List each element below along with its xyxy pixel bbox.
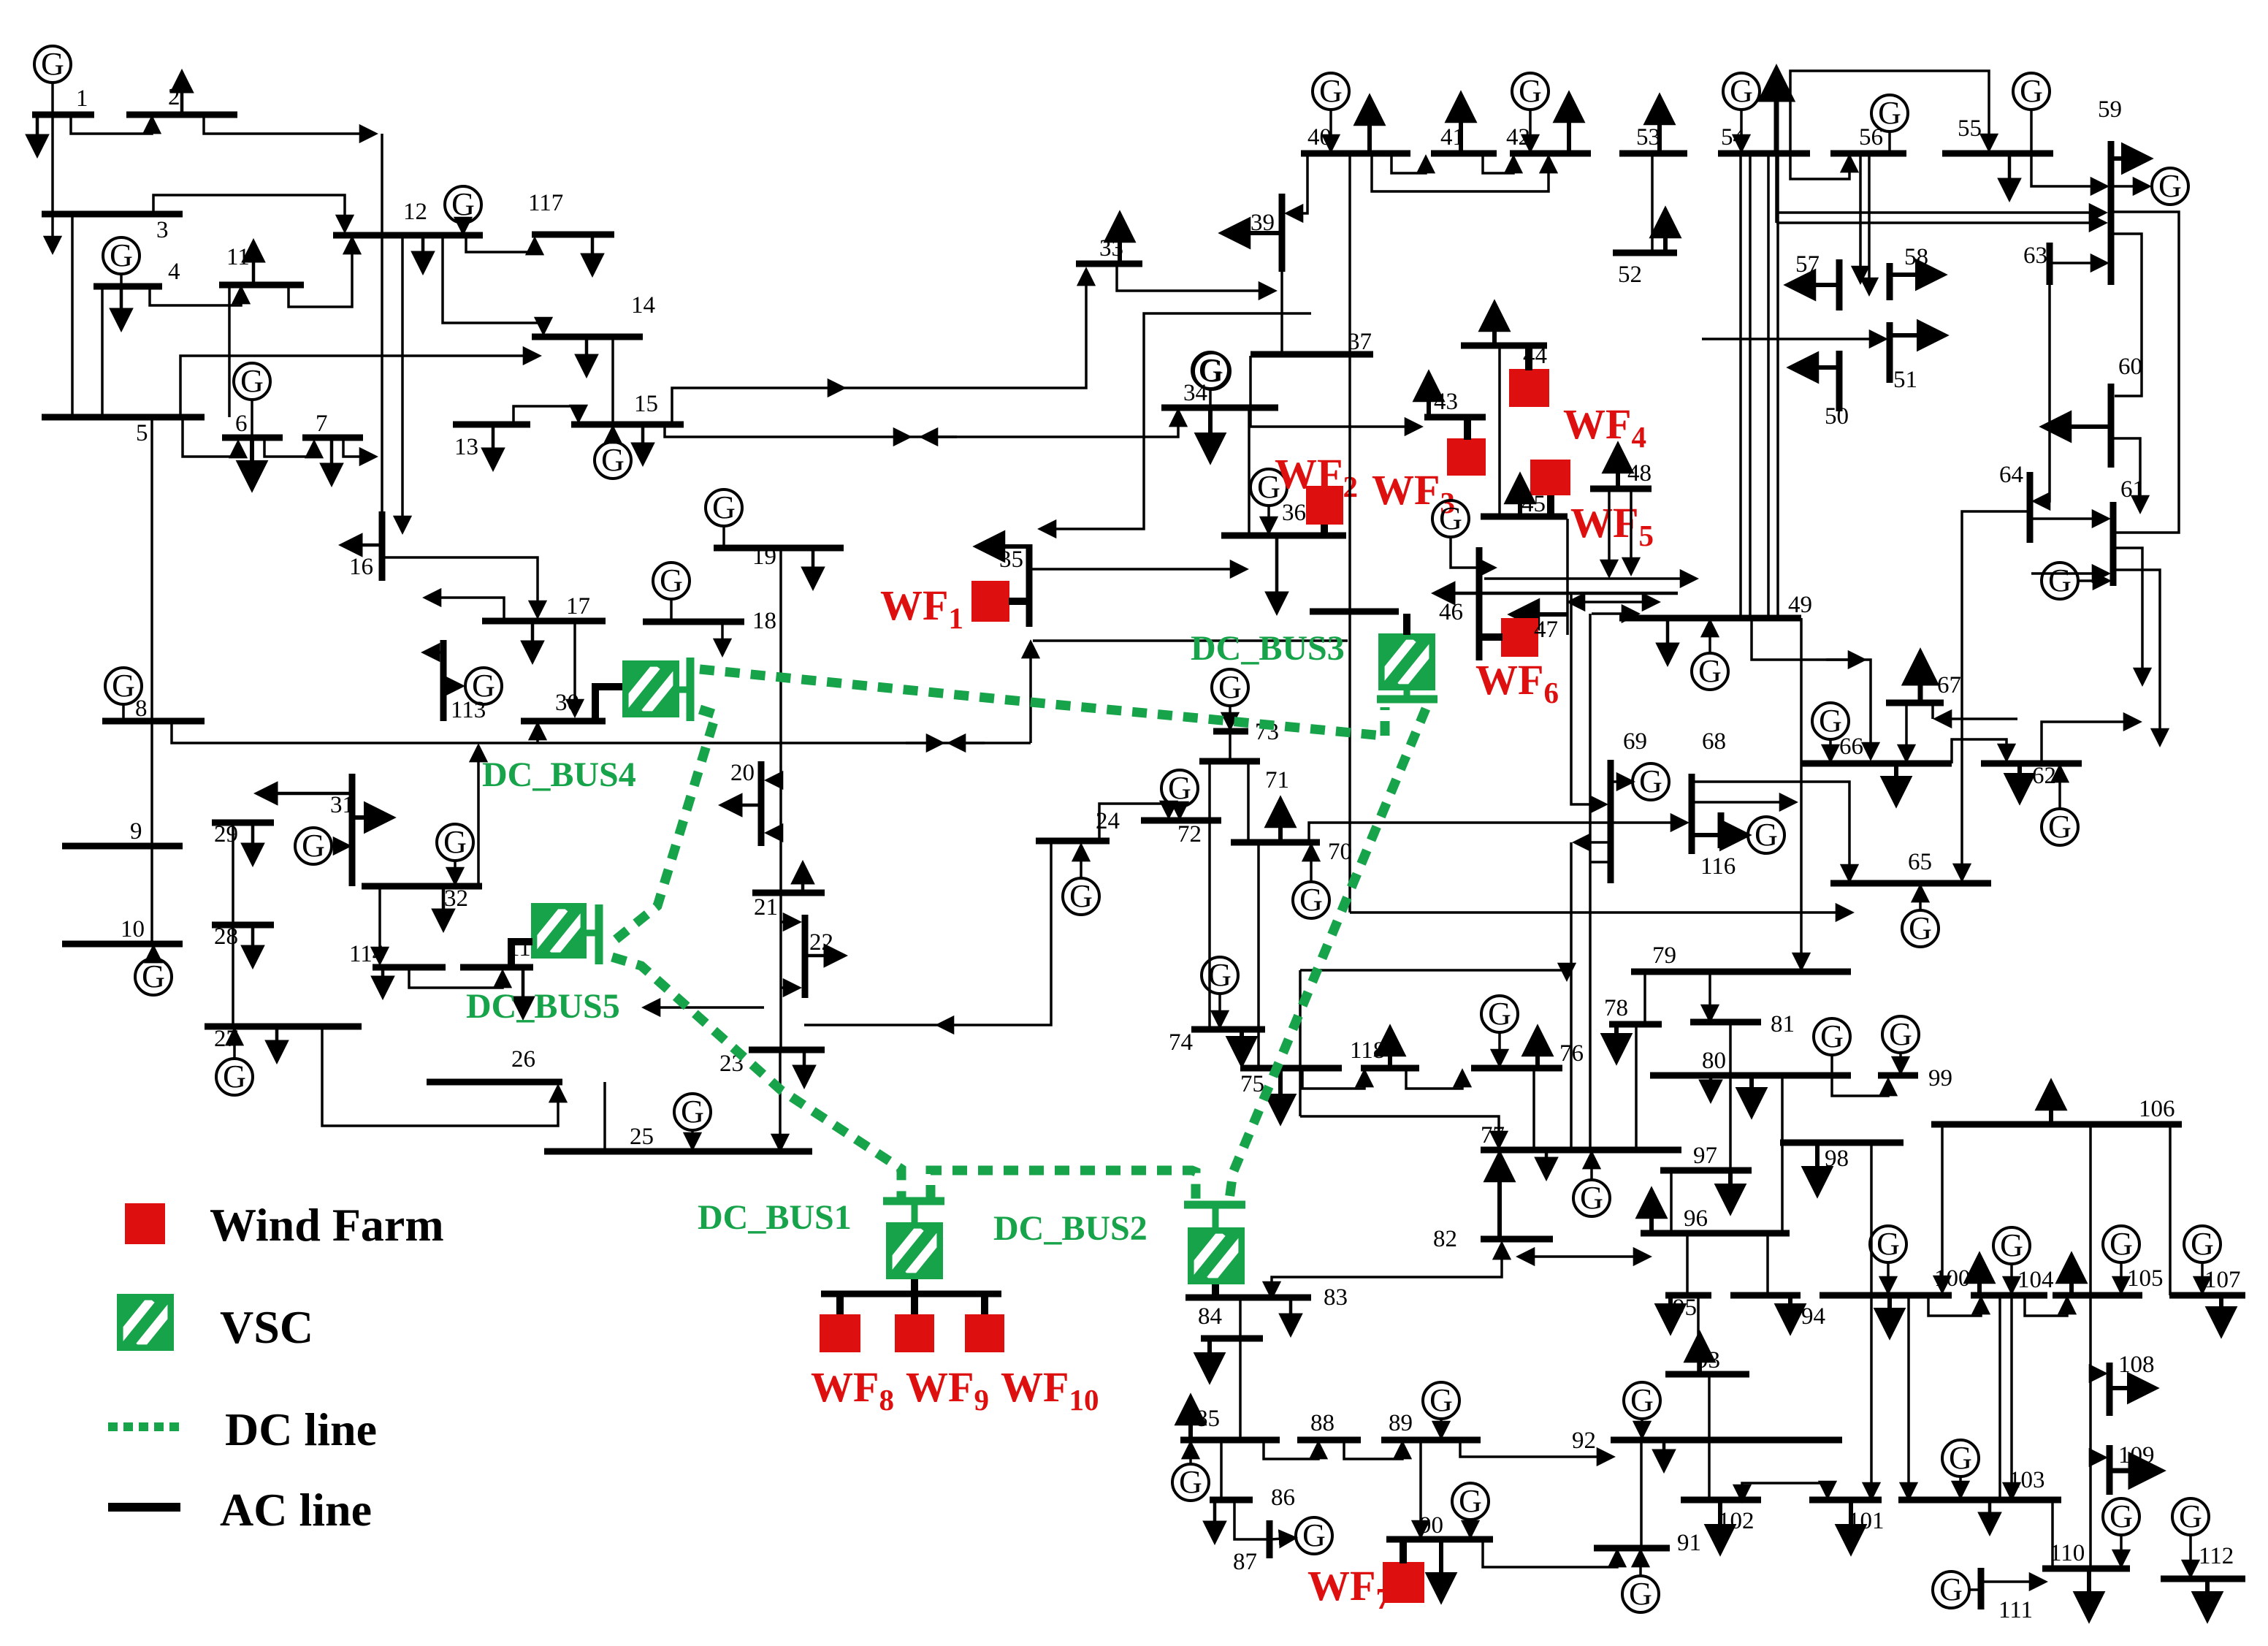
bus 98 <box>1780 1140 1904 1146</box>
load arrow up bus 2 <box>180 72 184 115</box>
generator G at bus 8 <box>105 668 142 704</box>
generator G at bus 55 <box>2013 73 2050 110</box>
bus 25 <box>544 1148 812 1155</box>
bus 30 <box>521 718 606 725</box>
bus 52 <box>1613 250 1677 256</box>
load arrow right bus 51 <box>1890 333 1944 338</box>
svg-text:67: 67 <box>1937 672 1961 698</box>
svg-text:G: G <box>2000 1227 2023 1263</box>
svg-text:18: 18 <box>752 608 776 634</box>
bus 88 <box>1297 1437 1361 1444</box>
wire 39-37 <box>1280 272 1283 354</box>
wire G99a lead <box>1832 1053 1888 1096</box>
wire G19 lead <box>722 525 725 546</box>
generator G at bus 111 <box>1933 1571 1969 1608</box>
svg-text:G: G <box>302 828 325 864</box>
wire G76 lead <box>1498 1031 1501 1065</box>
bus 66 <box>1801 761 1952 767</box>
load arrow left bus 20 <box>722 804 761 807</box>
wire 67 west link <box>1931 702 1934 719</box>
wire 32-30 <box>477 746 480 886</box>
bus 23 <box>749 1047 825 1053</box>
bus 71 <box>1199 758 1260 765</box>
bus 24 <box>1036 838 1110 845</box>
svg-text:G: G <box>110 237 133 273</box>
bus 117 <box>532 232 614 238</box>
load arrow up bus 105 <box>2069 1256 2074 1295</box>
svg-text:G: G <box>1488 996 1511 1032</box>
svg-text:4: 4 <box>168 259 180 285</box>
wire 54-49 feeders <box>1739 155 1742 617</box>
wire 61-62 east <box>2113 570 2160 744</box>
generator G at bus 54 <box>1723 73 1760 110</box>
svg-text:78: 78 <box>1604 995 1628 1021</box>
WF9 stub <box>911 1294 918 1316</box>
generator G at bus 4 <box>103 237 140 274</box>
bus 57 <box>1836 259 1843 310</box>
bus 50 <box>1836 351 1843 411</box>
wire 27-26 <box>322 1026 558 1126</box>
svg-text:95: 95 <box>1673 1295 1697 1321</box>
bus 78 <box>1609 1021 1662 1028</box>
svg-text:48: 48 <box>1627 460 1652 487</box>
wire 54-59 double A <box>1776 211 2105 214</box>
WF10 stub <box>981 1294 988 1316</box>
svg-text:G: G <box>1319 73 1343 109</box>
load arrow up bus 11 <box>252 242 256 285</box>
load arrow bus 6 <box>250 438 254 488</box>
generator G at bus 62 <box>2042 809 2078 845</box>
bus 3 <box>42 211 183 218</box>
bus 18 <box>643 619 744 625</box>
svg-text:96: 96 <box>1684 1205 1708 1232</box>
wire 35 east <box>1029 568 1246 571</box>
svg-text:70: 70 <box>1328 839 1352 865</box>
wire 40-37-38 <box>1348 153 1351 611</box>
svg-text:85: 85 <box>1196 1406 1220 1432</box>
svg-text:40: 40 <box>1307 124 1332 150</box>
bus 6 <box>222 435 283 441</box>
load arrow bus 49 <box>1666 618 1670 663</box>
svg-text:112: 112 <box>2199 1543 2234 1569</box>
generator G at bus 116 <box>1748 817 1784 853</box>
load arrow bus 29 <box>251 823 255 864</box>
load arrow bus 80 b <box>1749 1075 1754 1115</box>
wire 75-118 <box>1302 1068 1364 1089</box>
generator G at bus 42 <box>1512 73 1549 110</box>
legend VSC symbol <box>117 1294 174 1351</box>
wire bus30 to VSC4 <box>595 687 622 720</box>
wire 87-G <box>1271 1538 1295 1539</box>
svg-text:G: G <box>1299 882 1323 918</box>
wire 20 hook bottom <box>767 831 781 834</box>
bus 1 <box>32 112 94 118</box>
svg-text:G: G <box>1698 653 1722 689</box>
bus 45 <box>1481 514 1568 520</box>
wire 26-25 <box>603 1082 606 1150</box>
wire 51 west link <box>1702 338 1885 340</box>
wire 7-16 <box>343 438 375 457</box>
red square WF6 <box>1501 618 1538 657</box>
svg-text:76: 76 <box>1559 1040 1584 1067</box>
wire 104-103 a <box>1998 1295 2001 1500</box>
bus 106 <box>1931 1121 2182 1128</box>
load arrow right bus 31 <box>352 815 392 820</box>
load arrow bus 4 <box>120 286 123 329</box>
svg-text:DC_BUS5: DC_BUS5 <box>466 987 620 1026</box>
svg-text:80: 80 <box>1702 1048 1726 1074</box>
svg-text:57: 57 <box>1795 251 1820 278</box>
svg-text:3: 3 <box>156 217 169 243</box>
svg-text:1: 1 <box>76 85 88 112</box>
bus 4 <box>93 283 162 290</box>
wire 48-49 b <box>1630 489 1633 574</box>
bus 40 <box>1301 150 1410 157</box>
generator G at bus 100 <box>1870 1226 1906 1262</box>
generator G at bus 49 <box>1692 653 1728 690</box>
svg-text:77: 77 <box>1481 1122 1505 1148</box>
load arrow bus 84 <box>1207 1338 1212 1380</box>
wire 69-77 a <box>1570 842 1573 1148</box>
svg-text:G: G <box>443 824 467 860</box>
bus 83 <box>1185 1295 1311 1301</box>
svg-text:92: 92 <box>1572 1428 1596 1454</box>
load arrow left bus 31 <box>257 792 352 796</box>
wire G111 lead <box>1969 1588 1978 1591</box>
WF4 stub <box>1525 346 1532 370</box>
bus 100 <box>1820 1292 1952 1299</box>
bus 14 <box>532 334 643 340</box>
wire G24 lead <box>1080 845 1083 880</box>
load arrow up bus 76 <box>1535 1029 1540 1068</box>
wire 54-56 hook <box>1790 153 1849 179</box>
wire 56-51 <box>1868 153 1871 294</box>
load arrow bus 92 <box>1662 1440 1666 1470</box>
wire G56 lead <box>1888 130 1891 152</box>
bus 118 <box>1361 1065 1419 1072</box>
legend red square Wind Farm <box>125 1203 165 1244</box>
bus 68 <box>1689 774 1695 854</box>
generator G at bus 36 <box>1251 469 1287 506</box>
bus 87 <box>1267 1520 1273 1558</box>
wire 67-66 <box>1905 703 1908 761</box>
wire 64-65 <box>1962 511 2030 880</box>
wire G89 lead <box>1440 1417 1443 1437</box>
wire 104-105 hook <box>2025 1295 2067 1316</box>
load arrow left bus 46 <box>1435 592 1678 595</box>
svg-text:9: 9 <box>130 818 142 845</box>
VSC converter U5 (DC_BUS5) <box>531 903 587 959</box>
wire 83-82 <box>1272 1243 1502 1298</box>
svg-text:36: 36 <box>1282 500 1306 526</box>
svg-text:45: 45 <box>1521 491 1546 517</box>
wire G112 lead <box>2189 1533 2192 1576</box>
wire 22 hook top <box>781 921 799 923</box>
wire 3-12 <box>153 195 345 231</box>
bus 28 <box>212 922 274 929</box>
wire 100-103 <box>1907 1295 1910 1498</box>
load arrow bus 102 <box>1718 1500 1722 1552</box>
svg-text:G: G <box>1200 353 1223 389</box>
load arrow up bus 44 <box>1492 304 1497 346</box>
svg-text:13: 13 <box>454 434 478 460</box>
wire 40-41 <box>1391 153 1426 173</box>
wire 59-G <box>2114 185 2149 188</box>
load arrow bus 75 <box>1278 1068 1283 1121</box>
generator G at bus 99 a <box>1814 1018 1850 1055</box>
DC bus bar 5 <box>595 904 603 964</box>
wire 29-27 <box>232 823 234 1026</box>
wire 77-78 <box>1635 1024 1638 1150</box>
load arrow bus 13 <box>492 424 495 468</box>
load arrow up bus 41 <box>1459 95 1463 153</box>
wire 96-94 <box>1766 1233 1769 1295</box>
load arrow up bus 106 <box>2049 1083 2053 1124</box>
generator G at bus 10 <box>135 959 172 995</box>
bus 89 <box>1381 1437 1481 1444</box>
wire 106-109 <box>2091 1456 2105 1459</box>
svg-text:G: G <box>1820 1018 1844 1054</box>
bus 84 <box>1201 1336 1263 1342</box>
svg-text:69: 69 <box>1623 728 1647 755</box>
WF6 stub <box>1479 633 1503 641</box>
svg-text:111: 111 <box>1998 1597 2033 1623</box>
load arrow bus 27 <box>275 1026 279 1061</box>
svg-text:G: G <box>1630 1382 1654 1418</box>
generator G at bus 112 <box>2172 1498 2209 1535</box>
svg-text:58: 58 <box>1904 244 1928 270</box>
svg-text:G: G <box>660 563 683 598</box>
svg-text:10: 10 <box>121 916 145 942</box>
svg-text:G: G <box>1429 1382 1453 1418</box>
bus 16 <box>379 511 386 581</box>
wire 15-33 <box>672 388 844 424</box>
load arrow bus 34 <box>1208 408 1213 460</box>
wire G72 lead <box>1178 805 1181 818</box>
svg-text:35: 35 <box>999 546 1023 573</box>
wire 95-93 <box>1697 1295 1700 1374</box>
load arrow up bus 118 <box>1388 1029 1392 1068</box>
svg-text:G: G <box>1208 957 1232 993</box>
svg-text:56: 56 <box>1859 124 1883 150</box>
bus 58 <box>1887 263 1893 300</box>
load arrow bus 94 <box>1788 1295 1792 1331</box>
load arrow bus 55 <box>2008 153 2012 199</box>
bus 73 <box>1213 728 1248 735</box>
bus 102 <box>1681 1497 1761 1504</box>
wire 98-100-101 <box>1870 1143 1873 1498</box>
bus 8 <box>102 718 205 725</box>
wire 81-80 <box>1729 1022 1732 1075</box>
svg-text:110: 110 <box>2050 1540 2085 1566</box>
wire G10 lead <box>152 947 155 960</box>
bus 19 <box>714 545 844 552</box>
wire G46 lead <box>1451 536 1494 568</box>
svg-text:89: 89 <box>1389 1410 1413 1436</box>
bus 67 <box>1886 700 1944 706</box>
wire G90 lead <box>1469 1518 1472 1536</box>
svg-text:84: 84 <box>1198 1303 1222 1330</box>
svg-text:81: 81 <box>1771 1011 1795 1037</box>
load arrow up bus 67 <box>1918 653 1923 703</box>
svg-text:G: G <box>1302 1517 1326 1553</box>
wire 14-15 <box>611 337 614 424</box>
bus 34 <box>1161 405 1278 411</box>
bus 79 <box>1631 969 1851 975</box>
red square WF7 <box>1383 1562 1424 1603</box>
svg-text:94: 94 <box>1801 1303 1825 1330</box>
bus 107 <box>2169 1292 2245 1299</box>
svg-text:DC line: DC line <box>225 1403 377 1455</box>
bus 29 <box>212 820 274 826</box>
red square WF8 <box>820 1314 860 1352</box>
svg-text:G: G <box>1519 73 1542 109</box>
wire 71-70 <box>1247 761 1250 842</box>
bus 113 <box>440 640 447 721</box>
WF5 stub <box>1547 495 1554 518</box>
svg-text:30: 30 <box>555 690 579 716</box>
svg-text:DC_BUS1: DC_BUS1 <box>698 1198 852 1237</box>
bus 110 <box>2042 1566 2130 1572</box>
svg-text:Wind Farm: Wind Farm <box>210 1199 444 1251</box>
svg-text:G: G <box>1909 910 1932 946</box>
load arrow bus 36 <box>1275 536 1279 612</box>
svg-text:G: G <box>1439 500 1462 536</box>
bus 97 <box>1660 1167 1752 1174</box>
bus 15 <box>571 422 684 428</box>
wire 92-91 <box>1640 1440 1643 1548</box>
generator G at bus 32 <box>437 824 473 861</box>
svg-text:116: 116 <box>1700 853 1736 880</box>
svg-text:8: 8 <box>135 696 148 722</box>
bus 108 <box>2107 1363 2113 1416</box>
bus 46 <box>1476 547 1483 660</box>
wire 85-86 <box>1220 1440 1223 1500</box>
wire 64-61 b <box>2031 572 2108 575</box>
wire 106-108 <box>2091 1372 2105 1375</box>
bus 93 <box>1665 1371 1749 1378</box>
load arrow bus 114 <box>381 967 385 997</box>
wire 44-45 <box>1498 346 1501 517</box>
wire 46 east arrow <box>1512 612 1568 617</box>
wire 66-62 <box>1952 739 2007 763</box>
wire VSC2 to bus83 <box>1212 1284 1219 1296</box>
red square WF10 <box>965 1314 1004 1352</box>
svg-text:102: 102 <box>1718 1508 1755 1534</box>
load arrow bus 98 <box>1815 1143 1820 1194</box>
svg-text:G: G <box>681 1094 704 1129</box>
bus 80 <box>1650 1072 1851 1079</box>
load arrow bus 7 <box>330 438 334 484</box>
wire G27 lead <box>233 1029 236 1060</box>
svg-text:98: 98 <box>1825 1146 1849 1172</box>
load arrow bus 97 <box>1728 1170 1733 1211</box>
wire G32 lead <box>454 859 457 883</box>
svg-text:68: 68 <box>1702 728 1726 755</box>
wire 68 east <box>1692 801 1795 804</box>
svg-text:47: 47 <box>1534 617 1558 643</box>
svg-text:103: 103 <box>2009 1467 2045 1493</box>
bus 5 <box>42 414 205 421</box>
svg-text:108: 108 <box>2118 1352 2155 1378</box>
wire 68-65 <box>1692 782 1849 880</box>
red square WF5 <box>1530 460 1570 495</box>
svg-text:G: G <box>601 442 625 478</box>
svg-text:51: 51 <box>1893 367 1917 393</box>
wire 83-85 <box>1239 1298 1242 1440</box>
load arrow up bus 33 <box>1118 215 1122 264</box>
DC line BUS5-BUS1 <box>612 957 901 1200</box>
bus 64 <box>2027 472 2034 543</box>
svg-text:65: 65 <box>1908 849 1932 875</box>
wire 46 cluster a <box>1484 577 1696 580</box>
svg-text:71: 71 <box>1265 767 1289 793</box>
load arrow bus 115 <box>522 967 525 1017</box>
load arrow up bus 45 <box>1518 476 1522 517</box>
svg-text:G: G <box>1069 878 1093 914</box>
load arrow up bus 40 <box>1367 98 1372 153</box>
generator G at bus 66 <box>1812 703 1849 739</box>
wire 56-57 <box>1859 153 1862 282</box>
load arrow bus 12 <box>421 235 425 272</box>
wire 47 drop <box>1566 519 1569 635</box>
wire 102-101 <box>1742 1483 1828 1501</box>
bus 44 <box>1461 343 1547 349</box>
bus 22 <box>802 915 809 998</box>
wire 37-43 <box>1251 356 1421 427</box>
svg-text:15: 15 <box>634 391 658 417</box>
wire 40-39 <box>1287 153 1307 213</box>
load arrow up bus 70 <box>1278 800 1283 842</box>
wire 75-69 north <box>1300 970 1567 979</box>
bus 82 <box>1481 1236 1553 1243</box>
bus 104 <box>1971 1292 2047 1299</box>
bus 92 <box>1611 1437 1842 1444</box>
svg-text:G: G <box>1179 1464 1202 1500</box>
wire 118-76 <box>1406 1068 1462 1089</box>
bus 37 <box>1251 351 1373 358</box>
wire G61 lead <box>2077 579 2109 582</box>
wire 53-52 <box>1651 153 1654 253</box>
generator G at bus 87 <box>1296 1517 1332 1554</box>
bus 95 <box>1665 1292 1711 1299</box>
legend AC line sample <box>108 1503 180 1512</box>
svg-text:2: 2 <box>168 84 180 110</box>
bus 17 <box>482 618 606 625</box>
wire 59 loop east <box>2111 212 2179 533</box>
bus 27 <box>205 1024 362 1030</box>
wire 38-68 <box>1309 823 1687 842</box>
svg-text:DC_BUS2: DC_BUS2 <box>993 1209 1148 1248</box>
wire G100 lead <box>1887 1261 1890 1292</box>
wire 22 hook bottom <box>781 986 799 989</box>
wire G74 lead <box>1218 992 1221 1026</box>
load arrow up bus 43 <box>1427 374 1431 417</box>
load arrow bus 74 <box>1240 1029 1244 1064</box>
generator G at bus 73 <box>1212 669 1248 706</box>
wire 12-117 <box>466 235 535 252</box>
svg-text:G: G <box>2179 1498 2202 1534</box>
svg-text:G: G <box>472 668 495 704</box>
bus 85 <box>1180 1437 1280 1444</box>
bus 33 <box>1076 261 1142 267</box>
svg-text:46: 46 <box>1439 599 1463 625</box>
red square WF4 <box>1509 369 1549 407</box>
wire 93-102 <box>1708 1374 1711 1500</box>
load arrow bus 78 <box>1614 1024 1619 1061</box>
wire 54-59 double B <box>1776 221 2105 224</box>
wire 89-92 <box>1460 1440 1613 1457</box>
